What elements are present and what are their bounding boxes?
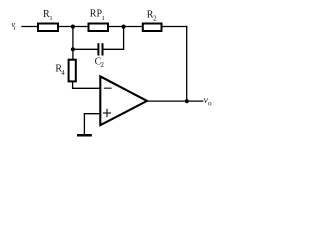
node C junction dot bbox=[71, 47, 75, 51]
wire op-amp output to vo bbox=[146, 100, 203, 102]
resistor R4 bbox=[55, 60, 75, 82]
capacitor C2 bbox=[95, 43, 105, 69]
node B junction dot bbox=[122, 25, 126, 29]
node vo bbox=[204, 96, 212, 108]
svg-text:1: 1 bbox=[49, 15, 52, 22]
node vi bbox=[11, 19, 15, 32]
wire R2 to right rail bbox=[162, 26, 188, 28]
wire node A down to node C bbox=[72, 27, 74, 50]
wire node C down to R4 bbox=[72, 49, 74, 59]
svg-text:i: i bbox=[14, 26, 16, 32]
svg-text:2: 2 bbox=[100, 61, 104, 69]
wire R1 to RP1 bbox=[59, 26, 89, 28]
wire R4 to op-amp inverting input bbox=[73, 81, 101, 88]
node A junction dot bbox=[71, 25, 75, 29]
resistor R2 bbox=[143, 9, 162, 31]
node D output junction dot bbox=[185, 99, 189, 103]
wire right rail down to output node bbox=[186, 26, 188, 101]
potentiometer RP1 bbox=[89, 9, 109, 31]
op-amp U1 bbox=[100, 76, 147, 125]
svg-text:o: o bbox=[208, 100, 212, 108]
ground bbox=[77, 134, 92, 137]
wire RP1 to R2 bbox=[108, 26, 143, 28]
wire input vi to R1 bbox=[21, 26, 38, 28]
wire node C to C2 left plate bbox=[73, 48, 98, 50]
svg-text:2: 2 bbox=[153, 14, 157, 22]
resistor R1 bbox=[38, 9, 58, 31]
svg-text:1: 1 bbox=[102, 15, 105, 22]
wire C2 right plate to node B bbox=[104, 27, 124, 50]
wire non-inverting input to ground bbox=[84, 114, 100, 135]
svg-text:4: 4 bbox=[61, 69, 65, 77]
